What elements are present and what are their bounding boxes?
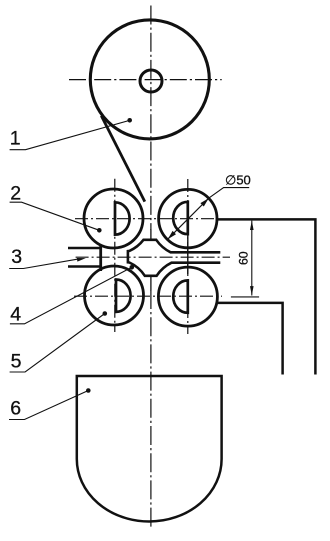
roller BL shaft half-disc <box>116 280 131 312</box>
guide chute top plate <box>216 219 316 374</box>
roller TL (pos 2) <box>84 189 143 248</box>
leader 1 <box>10 120 130 149</box>
wheel hub <box>140 70 162 92</box>
collecting bin (pos 6) <box>77 376 222 522</box>
roller TR shaft half-disc <box>173 202 188 234</box>
svg-text:3: 3 <box>11 246 22 268</box>
dia 50 leader: underline and elbow <box>209 188 250 199</box>
entry strip bottom edge <box>68 265 102 268</box>
roller BL (pos 5) <box>85 266 144 325</box>
coil/reel wheel horizontal centerline <box>69 79 222 81</box>
left roller column centerline <box>114 179 116 332</box>
guide chute bottom plate <box>217 303 283 375</box>
svg-text:1: 1 <box>10 128 21 150</box>
main axis solid segments at profile <box>150 229 152 291</box>
svg-text:4: 4 <box>10 304 21 326</box>
dim 60 extension line <box>231 296 259 298</box>
leader 3 (arrow at strip) <box>9 259 78 268</box>
formed profile (pos 4) with exit strip edges <box>128 240 220 276</box>
dia 50 arrowheads <box>200 198 208 206</box>
dim 60 text <box>237 251 251 265</box>
entry strip end cap <box>99 245 102 271</box>
dia 50 dimension diagonal through TR roller <box>168 198 209 239</box>
roller TR (50 dia) <box>159 189 217 247</box>
roller BR shaft half-disc <box>173 280 188 312</box>
strip pass-line centerline <box>76 256 230 258</box>
leader 4 <box>10 267 132 324</box>
entry strip (pos 3) top edge <box>68 247 102 250</box>
svg-text:6: 6 <box>10 398 21 420</box>
roller TL shaft half-disc <box>115 202 130 234</box>
right column solid segment <box>187 233 189 274</box>
bottom roller row centerline <box>74 295 222 297</box>
svg-text:2: 2 <box>10 182 21 204</box>
coil/reel wheel (pos 1) <box>90 20 209 139</box>
dim 60 arrowheads <box>250 221 254 230</box>
roller BR <box>158 267 217 326</box>
leader 2 <box>10 202 100 230</box>
main vertical centerline (axis) <box>150 6 152 529</box>
leader 6 <box>9 391 88 420</box>
top roller row centerline <box>75 218 216 220</box>
strip feed line from coil to rolls <box>101 116 145 202</box>
svg-text:∅50: ∅50 <box>225 172 251 187</box>
dim 60 line <box>251 221 253 296</box>
leader 5 <box>10 314 105 373</box>
svg-text:5: 5 <box>11 351 22 373</box>
right roller column centerline <box>187 179 189 334</box>
svg-text:60: 60 <box>237 251 251 265</box>
